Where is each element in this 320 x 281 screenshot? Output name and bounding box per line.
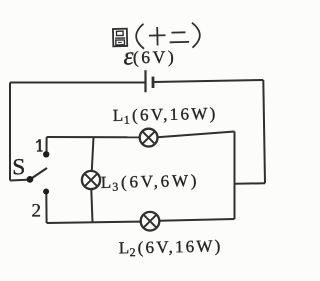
svg-text:L1(6V,16W): L1(6V,16W) [113,104,218,127]
svg-text:L3(6V,6W): L3(6V,6W) [101,171,200,194]
svg-text:L2(6V,16W): L2(6V,16W) [119,236,223,259]
svg-text:(6V): (6V) [133,47,177,68]
svg-text:S: S [12,155,25,181]
svg-text:2: 2 [32,201,42,222]
